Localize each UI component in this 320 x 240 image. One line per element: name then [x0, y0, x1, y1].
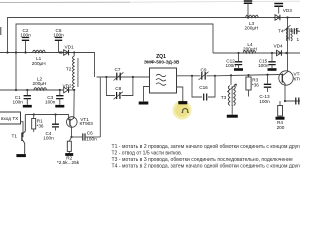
transistor T1	[12, 115, 26, 156]
svg-text:T1: T1	[12, 134, 18, 139]
svg-text:ЭМФ-500-ЭД-3В: ЭМФ-500-ЭД-3В	[144, 60, 180, 65]
svg-text:200µH: 200µH	[245, 26, 259, 31]
svg-text:100n: 100n	[12, 100, 23, 105]
svg-text:100n: 100n	[258, 63, 269, 68]
transistor VT1	[67, 117, 94, 137]
svg-text:200: 200	[277, 125, 285, 130]
svg-text:100n: 100n	[45, 100, 56, 105]
svg-text:200µH: 200µH	[32, 61, 46, 66]
wire C6 riser	[99, 77, 101, 137]
filter ZQ1	[144, 54, 180, 93]
svg-text:C8: C8	[115, 86, 121, 91]
wire top bus	[8, 18, 301, 53]
svg-text:КТ903: КТ903	[80, 121, 94, 126]
svg-text:VD3: VD3	[283, 8, 293, 13]
svg-text:*2,5k...25k: *2,5k...25k	[57, 160, 80, 165]
capacitor C1	[12, 89, 31, 106]
resistor R4	[276, 101, 285, 130]
resistor R1	[32, 115, 44, 133]
svg-text:100n: 100n	[53, 32, 64, 37]
svg-text:100n: 100n	[259, 99, 270, 104]
svg-text:*36: *36	[37, 124, 44, 129]
capacitor top right 1	[244, 1, 252, 19]
capacitor C15	[258, 52, 276, 70]
svg-text:100n: 100n	[225, 63, 236, 68]
svg-text:T4: T4	[278, 29, 284, 34]
wire VT1 base feed	[25, 115, 70, 120]
transformer T2	[66, 51, 78, 91]
box вход TX	[0, 112, 23, 137]
capacitor C5	[53, 28, 64, 54]
svg-text:КТ6: КТ6	[294, 77, 301, 82]
svg-text:Т2 - отвод от 1/5 части витков: Т2 - отвод от 1/5 части витков.	[112, 150, 183, 156]
node left bus risers	[6, 51, 17, 91]
inductor L1	[32, 50, 46, 66]
resistor R2	[57, 137, 80, 165]
svg-text:100n: 100n	[43, 136, 54, 141]
wire VT3 emitter	[285, 85, 300, 101]
inductor L4	[243, 42, 257, 53]
inductor L2	[33, 76, 47, 90]
svg-text:вход ТХ: вход ТХ	[1, 116, 19, 121]
capacitor C13	[259, 75, 271, 104]
transformer T3	[221, 75, 238, 116]
svg-text:VD4: VD4	[274, 44, 284, 49]
resistor R3	[246, 75, 259, 96]
svg-text:Т3 - мотать в 3 провода, обмот: Т3 - мотать в 3 провода, обмотки соедини…	[112, 157, 293, 163]
svg-text:C16: C16	[199, 85, 208, 90]
capacitor C8 loop	[106, 77, 132, 99]
diode VD1	[60, 45, 74, 56]
wire bottom left	[0, 89, 63, 91]
wire main left bus	[0, 53, 95, 78]
svg-text:T2: T2	[66, 66, 72, 71]
capacitor top right 2	[274, 4, 283, 14]
wire right bus	[213, 52, 300, 54]
trimmer C7	[105, 67, 134, 81]
svg-text:T3: T3	[221, 95, 227, 100]
diode VD4	[274, 44, 284, 56]
svg-text:C6: C6	[87, 131, 93, 136]
capacitor edge right	[296, 98, 299, 105]
wire VT1 collector	[73, 90, 75, 118]
svg-text:100n: 100n	[20, 32, 31, 37]
capacitor C12	[225, 52, 243, 70]
svg-text:Т1 - мотать в 2 провода, затем: Т1 - мотать в 2 провода, затем начало од…	[112, 143, 301, 150]
wire to VT3	[215, 75, 279, 76]
capacitor C4	[43, 115, 59, 141]
ground filter output (highlighted)	[177, 87, 189, 112]
svg-text:C7: C7	[115, 67, 121, 72]
svg-text:*36: *36	[252, 82, 259, 87]
svg-text:200µH: 200µH	[33, 81, 47, 86]
trimmer C9	[191, 67, 216, 80]
transistor VT3	[279, 71, 303, 85]
diode VD2	[63, 84, 75, 93]
svg-text:Т4 - мотать в 2 провода, затем: Т4 - мотать в 2 провода, затем начало од…	[112, 162, 301, 168]
highlight marker	[172, 100, 191, 119]
capacitor C6	[70, 131, 100, 142]
diode VD3	[275, 8, 292, 20]
capacitor C16 loop	[192, 76, 215, 101]
ground filter input	[139, 87, 150, 104]
wire VT3 collector riser	[287, 18, 289, 72]
svg-text:C9: C9	[201, 67, 207, 72]
svg-text:100n: 100n	[86, 136, 97, 141]
capacitor C2	[20, 28, 31, 54]
transformer T4	[278, 25, 300, 42]
svg-text:VD1: VD1	[65, 45, 75, 50]
capacitor C3	[45, 89, 64, 106]
inductor L3	[245, 15, 259, 30]
top page rule	[0, 1, 130, 3]
edge mark left	[0, 27, 1, 35]
wire filter input	[97, 76, 150, 78]
wire filter output	[177, 75, 193, 77]
wire second bus	[16, 24, 213, 90]
svg-text:1: 1	[297, 37, 300, 42]
